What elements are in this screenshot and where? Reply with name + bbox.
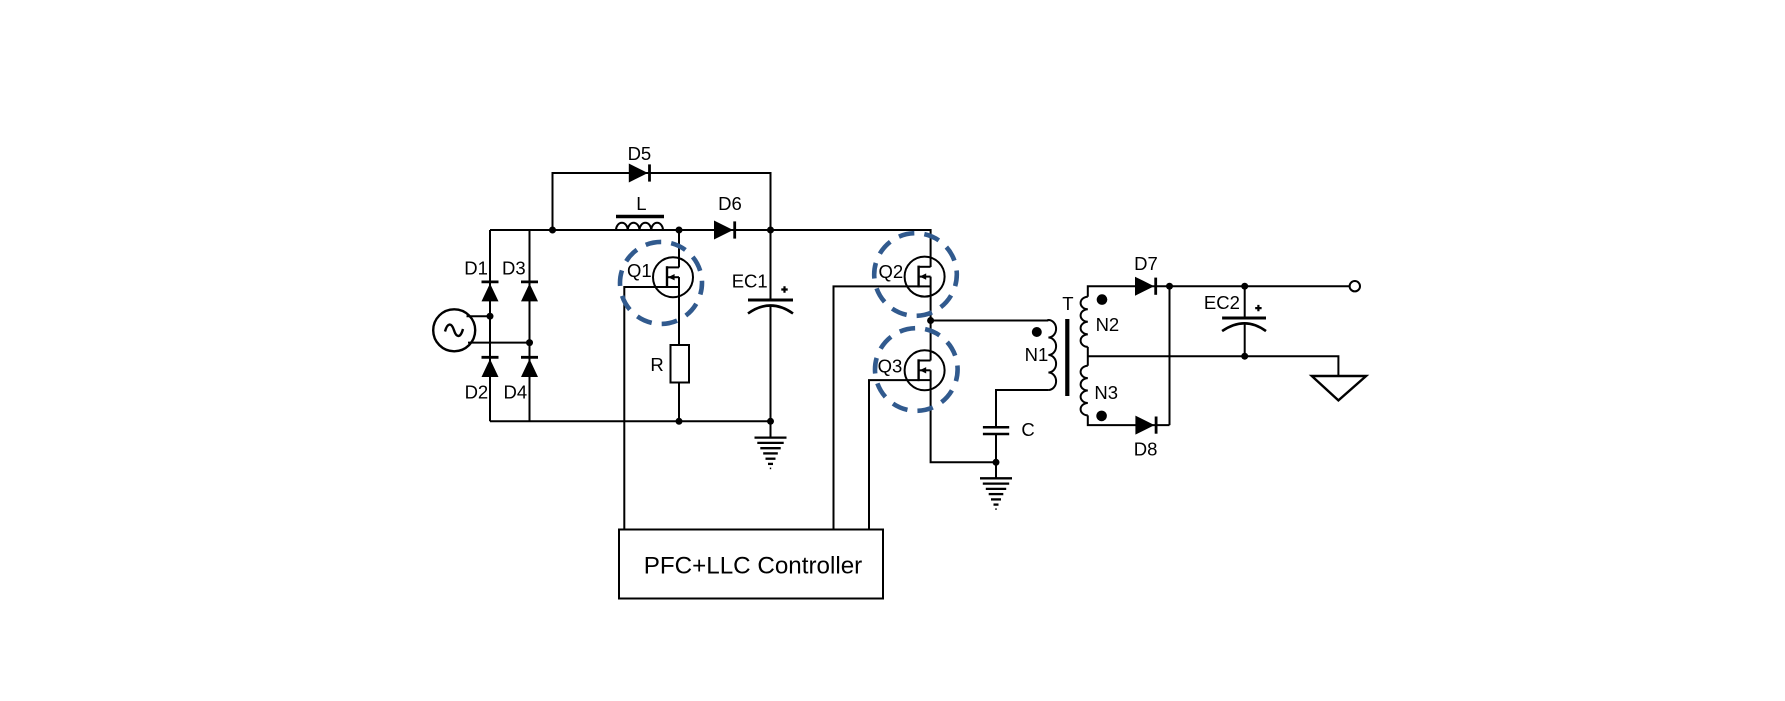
wire EC1 bottom stem to ground — [770, 306, 772, 438]
transformer T primary coil N1 — [1048, 320, 1056, 390]
wire N2 top to D7 and output rail — [1088, 286, 1350, 297]
wire bottom rail — [490, 420, 771, 422]
wire resistor R to bottom rail — [678, 383, 680, 422]
wire EC1 top stem — [770, 230, 772, 300]
dashed highlight circle around Q3 — [875, 328, 958, 411]
svg-text:N1: N1 — [1025, 344, 1049, 365]
node dot resonant cap C bottom — [993, 459, 1000, 466]
capacitor EC2 plus sign — [1255, 305, 1261, 311]
output terminal circle — [1350, 281, 1360, 291]
svg-text:Q3: Q3 — [878, 356, 903, 377]
wire Q3 source to resonant node — [931, 370, 996, 462]
node dot D7 cathode bus — [1166, 283, 1173, 290]
wire EC2 bottom stem — [1244, 324, 1246, 356]
node dot AC to D1 leg — [487, 313, 494, 320]
inductor L — [616, 223, 663, 230]
wire AC source top terminal — [467, 315, 491, 317]
wire capacitor C to ground — [995, 435, 997, 479]
node dot EC2 top — [1241, 283, 1248, 290]
wire bridge left leg D1/D2 — [489, 230, 491, 421]
svg-text:EC2: EC2 — [1204, 292, 1240, 313]
wire top rail from bridge to Q2 drain — [490, 230, 931, 267]
svg-text:PFC+LLC Controller: PFC+LLC Controller — [644, 552, 862, 579]
mosfet Q2 — [905, 257, 945, 297]
ground under resonant capacitor C — [980, 478, 1012, 509]
wire N3 bottom to D8 — [1088, 415, 1170, 425]
node dot D6 / EC1 junction — [767, 227, 774, 234]
wire secondary center tap to output return — [1088, 347, 1339, 376]
resistor R — [671, 345, 690, 383]
diode D7 — [1135, 277, 1156, 296]
wire transformer primary bottom to capacitor C — [996, 390, 1048, 427]
svg-text:EC1: EC1 — [732, 270, 768, 291]
svg-text:D8: D8 — [1134, 438, 1158, 459]
svg-text:Q2: Q2 — [878, 261, 903, 282]
mosfet Q1 arrow — [668, 274, 675, 280]
wire Q2 gate to controller — [834, 286, 920, 529]
mosfet Q1 — [653, 230, 693, 345]
dashed highlight circle around Q2 — [874, 233, 957, 316]
wire D7/D8 cathode bus — [1169, 286, 1171, 425]
node dot R at bottom rail — [676, 418, 683, 425]
ground under EC1 — [755, 438, 787, 469]
wire Q2 source to midpoint node — [930, 277, 932, 321]
capacitor C — [983, 427, 1009, 434]
mosfet Q3 arrow — [920, 367, 927, 373]
output ground triangle — [1312, 376, 1366, 400]
transformer T secondary coil N3 — [1081, 366, 1088, 416]
diode D8 — [1135, 416, 1156, 435]
svg-text:N2: N2 — [1096, 314, 1120, 335]
svg-text:D1: D1 — [464, 258, 488, 279]
diode D1 — [482, 282, 499, 302]
capacitor EC1 plus sign — [781, 286, 787, 292]
svg-text:L: L — [636, 193, 646, 214]
svg-text:C: C — [1021, 419, 1034, 440]
node dot Q1 drain on rail — [676, 227, 683, 234]
transformer T core — [1065, 319, 1069, 396]
mosfet Q2 arrow — [920, 273, 927, 279]
diode D6 — [714, 221, 735, 240]
diode D5 — [629, 164, 650, 183]
wire Q1 source to resistor R — [678, 277, 680, 345]
diode D4 — [521, 357, 538, 377]
svg-text:D4: D4 — [503, 381, 527, 402]
svg-text:D2: D2 — [465, 381, 489, 402]
AC source V — [433, 309, 475, 351]
wire Q3 gate to controller — [869, 380, 919, 529]
diode D2 — [482, 357, 499, 377]
capacitor EC1 — [748, 300, 793, 314]
node dot EC1 at bottom rail — [767, 418, 774, 425]
dashed highlight circle around Q1 — [620, 242, 702, 324]
wire Q1 gate to controller — [624, 287, 667, 530]
svg-text:D5: D5 — [628, 143, 652, 164]
wire D5 bypass branch — [553, 173, 771, 230]
svg-text:D3: D3 — [502, 258, 526, 279]
transformer T secondary coil N2 — [1081, 297, 1088, 347]
svg-text:D6: D6 — [718, 193, 742, 214]
node dot half-bridge midpoint — [927, 317, 934, 324]
transformer phase dot N2 — [1097, 294, 1108, 305]
controller box — [619, 530, 883, 599]
transformer phase dot N3 — [1096, 411, 1107, 422]
svg-text:T: T — [1062, 293, 1073, 314]
inductor L core bar — [616, 215, 664, 218]
wire bridge right leg D3/D4 — [529, 230, 531, 421]
mosfet Q3 — [905, 350, 945, 390]
capacitor EC2 — [1222, 318, 1266, 331]
wire EC2 top stem — [1244, 286, 1246, 318]
svg-text:R: R — [650, 354, 663, 375]
wire AC source bottom terminal — [468, 342, 530, 344]
node dot top rail / D5 branch — [549, 227, 556, 234]
wire midpoint to transformer primary — [931, 320, 1049, 322]
diode D3 — [521, 282, 538, 302]
svg-text:Q1: Q1 — [627, 260, 652, 281]
svg-text:N3: N3 — [1094, 382, 1118, 403]
wire Q3 drain — [930, 321, 932, 361]
svg-text:D7: D7 — [1134, 253, 1158, 274]
node dot EC2 bottom — [1241, 353, 1248, 360]
node dot AC to D3 leg — [526, 339, 533, 346]
transformer phase dot N1 — [1032, 327, 1042, 337]
